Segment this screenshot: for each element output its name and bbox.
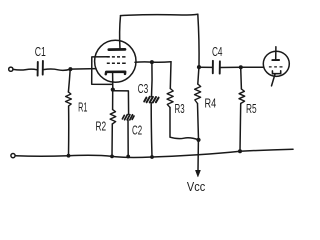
- svg-text:C2: C2: [132, 123, 142, 138]
- wire R5 node to tube V2 grid: [241, 66, 263, 68]
- wire top rail down to C4 node: [198, 14, 199, 67]
- wire C3 top lead: [151, 63, 154, 97]
- node rail C2: [126, 155, 130, 159]
- wire R3 bottom to Vcc node: [170, 107, 199, 139]
- svg-text:C4: C4: [212, 44, 223, 59]
- wire R3 top lead: [169, 62, 172, 89]
- wire cathode node to R2: [112, 91, 114, 110]
- wire R5 top lead: [240, 68, 243, 89]
- wire Vcc arrow stem: [197, 140, 199, 170]
- capacitor C4: [213, 61, 220, 74]
- node R1 junction: [68, 67, 72, 71]
- svg-text:R2: R2: [96, 119, 107, 134]
- wire R5 bottom lead: [239, 104, 242, 152]
- tube V2 plate: [272, 59, 279, 61]
- wire C1 to grid node: [43, 69, 96, 71]
- wire cathode lead: [112, 73, 114, 89]
- tube V2 grid (dashed): [269, 66, 283, 68]
- node C3 junction: [150, 60, 154, 64]
- svg-text:C3: C3: [138, 81, 149, 96]
- wire plate lead to top rail: [119, 16, 122, 49]
- wire C2 bottom lead: [127, 120, 129, 156]
- tube V1 envelope: [95, 40, 136, 82]
- svg-text:R3: R3: [175, 101, 185, 116]
- capacitor C1: [38, 61, 43, 76]
- wire C4 to R5 node: [220, 66, 241, 68]
- wire R4 bottom to Vcc node: [198, 104, 199, 140]
- ground terminal (bottom left): [11, 154, 15, 158]
- resistor R1: [66, 92, 72, 106]
- node rail R5: [238, 149, 242, 153]
- ground rail (bottom): [15, 149, 293, 157]
- svg-text:R5: R5: [246, 101, 257, 116]
- wire screen grid to R3: [135, 61, 171, 64]
- wire grid lead (tube V1 grid to input node): [92, 57, 113, 85]
- wire input to C1: [13, 68, 37, 71]
- wire R1 top lead: [68, 69, 70, 92]
- capacitor C3 (hatched): [144, 97, 158, 103]
- node cathode junction: [111, 88, 115, 92]
- node rail C3: [150, 155, 154, 159]
- tube V1 plate: [109, 48, 125, 51]
- wire cathode node to C2: [114, 91, 129, 115]
- node rail R2: [110, 155, 114, 159]
- wire R1 bottom lead: [68, 106, 70, 156]
- top rail (plate to B+ drop): [121, 14, 198, 15]
- wire C3 bottom lead: [150, 103, 153, 157]
- Vcc arrowhead: [196, 170, 201, 177]
- node Vcc junction: [196, 138, 200, 142]
- tube V1 grid 2 (dashed): [107, 62, 126, 64]
- wire V2 plate lead stub: [275, 47, 277, 60]
- svg-text:R1: R1: [78, 100, 87, 115]
- capacitor C2 (hatched): [122, 115, 134, 120]
- svg-text:Vcc: Vcc: [187, 179, 206, 194]
- node R5 junction: [239, 65, 243, 69]
- resistor R4: [195, 84, 201, 104]
- wire C4 left lead: [199, 66, 212, 68]
- svg-text:R4: R4: [205, 96, 217, 111]
- wire R2 bottom lead: [111, 124, 113, 156]
- resistor R5: [239, 89, 245, 104]
- tube V2 envelope: [263, 51, 289, 76]
- wire R4 top lead: [198, 68, 199, 85]
- node rail R1: [67, 154, 71, 158]
- svg-text:C1: C1: [35, 44, 46, 59]
- tube V1 grid 1 (dashed): [107, 56, 126, 58]
- node C4 junction: [197, 65, 201, 69]
- resistor R3: [167, 89, 173, 108]
- wire V2 cathode lead stub: [272, 74, 276, 86]
- tube V1 cathode: [106, 72, 125, 75]
- tube V2 cathode: [272, 71, 280, 74]
- input terminal (top left): [9, 67, 13, 71]
- resistor R2: [110, 110, 116, 125]
